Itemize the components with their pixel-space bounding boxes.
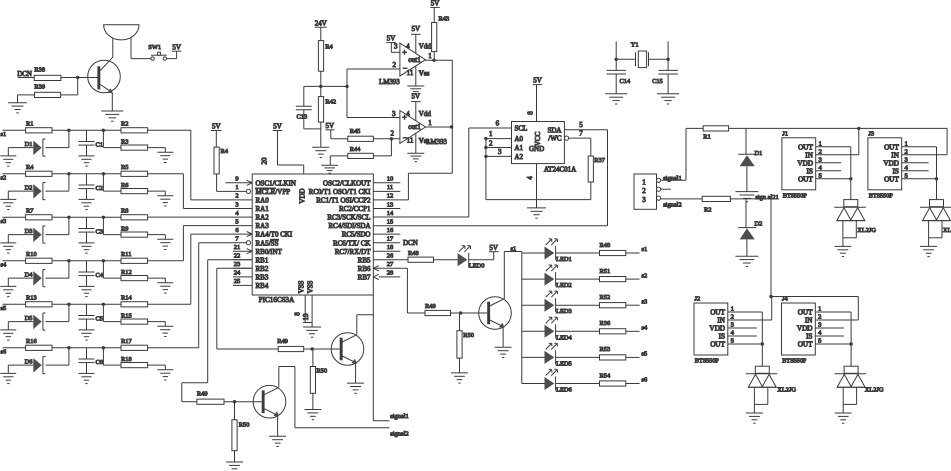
- svg-text:1: 1: [642, 178, 646, 186]
- svg-text:22: 22: [234, 253, 241, 260]
- svg-text:RC5/SDO: RC5/SDO: [342, 231, 371, 239]
- svg-text:5V: 5V: [412, 25, 421, 33]
- svg-text:R11: R11: [121, 251, 131, 258]
- svg-text:R38: R38: [34, 67, 45, 74]
- svg-text:RB7: RB7: [358, 274, 371, 282]
- svg-text:C13: C13: [297, 114, 308, 121]
- svg-text:IN: IN: [891, 151, 899, 159]
- svg-text:D1: D1: [755, 150, 763, 157]
- svg-text:R50: R50: [239, 422, 250, 429]
- svg-text:R1: R1: [703, 133, 710, 140]
- svg-text:R39: R39: [34, 84, 45, 91]
- svg-text:A1: A1: [515, 144, 524, 152]
- svg-text:VDD: VDD: [709, 325, 725, 333]
- svg-text:R7: R7: [26, 208, 34, 215]
- svg-text:R12: R12: [121, 269, 132, 276]
- svg-text:C3: C3: [96, 228, 103, 235]
- svg-text:1: 1: [428, 52, 432, 60]
- svg-text:5V: 5V: [431, 0, 440, 8]
- svg-text:LED0: LED0: [469, 263, 485, 270]
- svg-text:XL2JG: XL2JG: [943, 227, 951, 234]
- svg-text:VDD: VDD: [797, 159, 813, 167]
- svg-text:18: 18: [387, 244, 394, 251]
- svg-text:PIC16C63A: PIC16C63A: [259, 296, 295, 304]
- svg-text:D3: D3: [25, 228, 33, 235]
- svg-text:14: 14: [387, 210, 394, 217]
- svg-text:BTS550P: BTS550P: [783, 192, 808, 199]
- svg-text:3: 3: [642, 196, 646, 204]
- svg-text:2: 2: [905, 148, 908, 155]
- svg-text:1: 1: [818, 306, 821, 313]
- svg-text:C14: C14: [620, 78, 631, 85]
- svg-text:BTS550P: BTS550P: [695, 358, 720, 365]
- svg-text:J4: J4: [782, 296, 788, 303]
- svg-text:1: 1: [731, 306, 734, 313]
- svg-text:5V: 5V: [489, 244, 498, 252]
- svg-text:signal2: signal2: [663, 202, 681, 209]
- svg-text:IN: IN: [805, 151, 813, 159]
- svg-text:2: 2: [393, 61, 397, 69]
- svg-text:RC6/TX/ CK: RC6/TX/ CK: [333, 239, 371, 247]
- svg-text:11: 11: [387, 184, 393, 191]
- svg-text:RB2: RB2: [256, 265, 269, 273]
- svg-text:5: 5: [579, 121, 583, 129]
- svg-text:R44: R44: [350, 146, 361, 153]
- svg-text:2: 2: [235, 193, 238, 200]
- svg-text:RA0: RA0: [256, 197, 270, 205]
- svg-text:R9: R9: [121, 225, 128, 232]
- svg-text:C15: C15: [652, 78, 663, 85]
- svg-text:D4: D4: [25, 272, 34, 279]
- svg-text:LED5: LED5: [556, 360, 572, 367]
- svg-text:13: 13: [387, 201, 394, 208]
- svg-text:1: 1: [428, 119, 432, 127]
- svg-text:R5: R5: [121, 164, 128, 171]
- svg-text:OUT: OUT: [798, 143, 813, 151]
- svg-text:A0: A0: [515, 135, 524, 143]
- svg-text:3: 3: [498, 148, 502, 156]
- svg-text:LED4: LED4: [556, 334, 572, 341]
- svg-text:C6: C6: [96, 359, 103, 366]
- svg-text:28: 28: [387, 270, 394, 277]
- svg-text:R43: R43: [439, 16, 450, 23]
- svg-text:D2: D2: [755, 221, 763, 228]
- svg-text:s6: s6: [1, 348, 7, 355]
- svg-text:VDD: VDD: [299, 188, 307, 203]
- svg-text:signal2: signal2: [390, 430, 408, 437]
- svg-text:R45: R45: [350, 128, 361, 135]
- svg-text:5V: 5V: [212, 123, 221, 131]
- svg-text:R1: R1: [26, 121, 33, 128]
- svg-text:RA4/T0 CKI: RA4/T0 CKI: [256, 231, 293, 239]
- svg-text:9: 9: [235, 176, 238, 183]
- svg-text:signal1: signal1: [390, 413, 408, 420]
- svg-text:1: 1: [235, 184, 238, 191]
- svg-text:LED3: LED3: [556, 308, 572, 315]
- svg-text:OUT: OUT: [798, 309, 813, 317]
- svg-text:3: 3: [235, 201, 238, 208]
- svg-text:IN: IN: [805, 317, 813, 325]
- svg-text:s3: s3: [1, 218, 7, 225]
- svg-text:RA3: RA3: [256, 222, 270, 230]
- svg-text:R2: R2: [121, 121, 128, 128]
- svg-text:IS: IS: [892, 167, 898, 175]
- svg-text:8: 8: [527, 111, 535, 115]
- svg-text:RC4/SDI/SDA: RC4/SDI/SDA: [328, 222, 370, 230]
- svg-text:R4: R4: [221, 148, 229, 155]
- svg-text:IS: IS: [806, 333, 812, 341]
- svg-text:BTS550P: BTS550P: [869, 192, 894, 199]
- svg-text:7: 7: [579, 130, 583, 138]
- svg-text:J1: J1: [782, 130, 788, 137]
- svg-text:LM393: LM393: [426, 139, 447, 146]
- svg-text:8: 8: [294, 312, 302, 316]
- svg-text:R36: R36: [600, 320, 611, 327]
- svg-text:out1: out1: [408, 56, 421, 64]
- svg-text:MCLR/VPP: MCLR/VPP: [256, 188, 291, 196]
- svg-text:s4: s4: [1, 261, 7, 268]
- svg-text:J3: J3: [868, 130, 874, 137]
- svg-text:s5: s5: [642, 351, 648, 358]
- svg-text:24: 24: [234, 270, 241, 277]
- svg-text:RB1: RB1: [256, 256, 269, 264]
- svg-text:4: 4: [406, 43, 410, 51]
- svg-text:LED6: LED6: [556, 387, 572, 394]
- svg-text:XL2JG: XL2JG: [865, 387, 884, 394]
- svg-text:s6: s6: [642, 377, 648, 384]
- svg-text:1: 1: [905, 140, 908, 147]
- svg-text:s4: s4: [642, 325, 648, 332]
- svg-text:Vdd: Vdd: [419, 43, 432, 51]
- svg-text:2: 2: [818, 314, 821, 321]
- svg-text:RC3/SCK/SCL: RC3/SCK/SCL: [327, 214, 370, 222]
- svg-text:5V: 5V: [273, 123, 282, 131]
- svg-text:VCC: VCC: [534, 131, 542, 146]
- svg-text:15: 15: [387, 218, 394, 225]
- svg-text:17: 17: [387, 236, 394, 243]
- svg-text:sign al21: sign al21: [755, 194, 778, 201]
- svg-text:R17: R17: [121, 338, 132, 345]
- svg-text:Vdd: Vdd: [419, 110, 432, 118]
- svg-text:VSS: VSS: [307, 280, 315, 293]
- svg-text:R3: R3: [121, 138, 128, 145]
- svg-text:s2: s2: [1, 174, 7, 181]
- svg-text:R2: R2: [704, 207, 711, 214]
- svg-text:LED1: LED1: [556, 256, 572, 263]
- svg-text:R6: R6: [121, 182, 128, 189]
- svg-text:LM393: LM393: [379, 79, 400, 86]
- svg-text:/WC: /WC: [548, 135, 562, 143]
- svg-text:D5: D5: [25, 315, 33, 322]
- svg-text:C2: C2: [96, 185, 103, 192]
- svg-text:R49: R49: [197, 391, 208, 398]
- svg-text:RB3: RB3: [256, 274, 269, 282]
- svg-text:16: 16: [387, 227, 394, 234]
- svg-text:R8: R8: [121, 208, 128, 215]
- svg-text:2: 2: [819, 148, 822, 155]
- svg-text:R15: R15: [121, 312, 132, 319]
- svg-text:C1: C1: [96, 141, 103, 148]
- svg-text:R4: R4: [26, 164, 34, 171]
- svg-text:R52: R52: [600, 294, 611, 301]
- svg-text:R13: R13: [26, 295, 37, 302]
- svg-text:C4: C4: [96, 272, 104, 279]
- svg-text:s1: s1: [511, 245, 517, 252]
- svg-text:s1: s1: [1, 131, 7, 138]
- svg-text:D2: D2: [25, 185, 33, 192]
- svg-text:R42: R42: [325, 98, 336, 105]
- svg-text:R51: R51: [600, 268, 611, 275]
- svg-text:R48: R48: [408, 250, 419, 257]
- svg-text:OUT: OUT: [710, 309, 725, 317]
- svg-text:25: 25: [234, 278, 241, 285]
- svg-text:RB0/INT: RB0/INT: [256, 248, 283, 256]
- svg-text:5V: 5V: [172, 43, 181, 51]
- svg-text:s1: s1: [642, 246, 648, 253]
- svg-text:R16: R16: [26, 338, 37, 345]
- svg-text:RA2: RA2: [256, 214, 270, 222]
- svg-text:1: 1: [819, 140, 822, 147]
- svg-text:27: 27: [387, 261, 394, 268]
- svg-text:RA1: RA1: [256, 205, 270, 213]
- svg-text:RC2/CCP1: RC2/CCP1: [339, 205, 371, 213]
- svg-text:IN: IN: [717, 317, 725, 325]
- svg-text:RC7/RX/DT: RC7/RX/DT: [335, 248, 372, 256]
- svg-text:DCN: DCN: [403, 239, 418, 247]
- svg-text:RB6: RB6: [358, 265, 371, 273]
- svg-text:SW1: SW1: [148, 44, 161, 51]
- svg-text:VDD: VDD: [883, 159, 899, 167]
- svg-text:XL2JG: XL2JG: [857, 227, 876, 234]
- svg-text:IS: IS: [719, 333, 725, 341]
- svg-text:R54: R54: [600, 372, 611, 379]
- svg-text:s5: s5: [1, 305, 7, 312]
- svg-text:11: 11: [407, 69, 414, 77]
- svg-text:20: 20: [261, 157, 269, 165]
- svg-text:26: 26: [387, 253, 394, 260]
- svg-text:21: 21: [234, 244, 241, 251]
- svg-text:out1: out1: [408, 123, 421, 131]
- svg-text:D6: D6: [25, 359, 33, 366]
- svg-text:5V: 5V: [326, 122, 335, 130]
- svg-text:RB4: RB4: [256, 282, 269, 290]
- svg-text:A2: A2: [515, 153, 524, 161]
- svg-text:BTS550P: BTS550P: [782, 358, 807, 365]
- svg-text:5V: 5V: [387, 35, 396, 43]
- svg-text:OUT: OUT: [710, 341, 725, 349]
- svg-text:Y1: Y1: [631, 41, 639, 48]
- svg-text:R49: R49: [425, 303, 436, 310]
- svg-text:OSC2/CLKOUT: OSC2/CLKOUT: [323, 179, 371, 187]
- svg-text:SDA: SDA: [547, 126, 561, 134]
- svg-text:R18: R18: [121, 356, 132, 363]
- svg-text:5: 5: [235, 218, 238, 225]
- svg-text:R53: R53: [600, 346, 611, 353]
- svg-text:R49: R49: [277, 338, 288, 345]
- svg-text:12: 12: [387, 193, 394, 200]
- svg-text:R4: R4: [325, 44, 333, 51]
- svg-text:SCL: SCL: [515, 125, 528, 133]
- svg-text:RA5/SS: RA5/SS: [256, 239, 279, 247]
- svg-text:1: 1: [489, 130, 493, 138]
- svg-text:signal1: signal1: [663, 175, 681, 182]
- svg-text:OSC1/CLKIN: OSC1/CLKIN: [256, 179, 296, 187]
- svg-text:C5: C5: [96, 315, 103, 322]
- svg-text:4: 4: [526, 176, 534, 180]
- svg-text:s3: s3: [642, 298, 648, 305]
- svg-text:R48: R48: [600, 242, 611, 249]
- svg-text:OUT: OUT: [798, 175, 813, 183]
- svg-text:VSS: VSS: [298, 280, 306, 293]
- svg-text:6: 6: [496, 119, 500, 127]
- svg-text:10: 10: [387, 176, 394, 183]
- svg-text:OUT: OUT: [884, 143, 899, 151]
- svg-text:IS: IS: [806, 167, 812, 175]
- svg-text:R14: R14: [121, 295, 132, 302]
- svg-text:R10: R10: [26, 251, 37, 258]
- svg-text:19: 19: [302, 313, 310, 321]
- svg-text:5V: 5V: [412, 92, 421, 100]
- svg-text:D1: D1: [25, 141, 33, 148]
- svg-text:RB5: RB5: [358, 256, 371, 264]
- svg-text:LED2: LED2: [556, 282, 572, 289]
- svg-text:3: 3: [394, 43, 398, 51]
- svg-text:2: 2: [642, 187, 646, 195]
- svg-text:R50: R50: [463, 332, 474, 339]
- svg-text:2: 2: [731, 314, 734, 321]
- svg-text:VDD: VDD: [797, 325, 813, 333]
- svg-text:Vss: Vss: [419, 70, 430, 78]
- svg-text:AT24C01A: AT24C01A: [544, 165, 576, 173]
- svg-text:2: 2: [390, 129, 394, 137]
- svg-text:s2: s2: [642, 272, 648, 279]
- svg-text:OUT: OUT: [884, 175, 899, 183]
- svg-text:11: 11: [407, 137, 414, 145]
- svg-text:R37: R37: [594, 157, 605, 164]
- svg-text:5V: 5V: [533, 77, 542, 85]
- svg-text:OUT: OUT: [798, 341, 813, 349]
- svg-text:23: 23: [234, 261, 241, 268]
- svg-text:3: 3: [392, 110, 396, 118]
- svg-text:2: 2: [489, 139, 493, 147]
- svg-text:24V: 24V: [315, 19, 327, 27]
- svg-text:RC1/T1 OSI/CCP2: RC1/T1 OSI/CCP2: [316, 197, 371, 205]
- svg-text:J2: J2: [695, 296, 701, 303]
- svg-text:4: 4: [406, 110, 410, 118]
- svg-text:XL2JG: XL2JG: [777, 387, 796, 394]
- svg-text:R50: R50: [316, 368, 327, 375]
- svg-text:RC0/T1 OSO/T1 CKI: RC0/T1 OSO/T1 CKI: [309, 188, 372, 196]
